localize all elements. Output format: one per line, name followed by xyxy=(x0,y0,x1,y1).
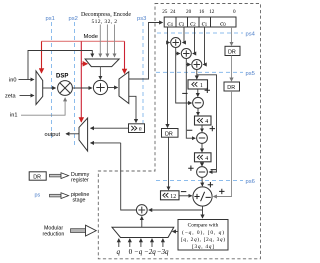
svg-text:Decompress, Encode: Decompress, Encode xyxy=(81,12,131,18)
final adder/subtractor +/- xyxy=(193,187,212,206)
wire S1 to <<4 xyxy=(197,108,199,115)
sign plus right of +/- adder xyxy=(219,189,224,194)
shifter << 1 xyxy=(188,80,208,89)
sign plus at S1 xyxy=(205,88,210,93)
node: c4 branch to A1 xyxy=(168,42,170,44)
svg-text:DR: DR xyxy=(165,131,173,137)
red vertical to output mux M4 xyxy=(80,41,82,122)
adder (DSP post-adder) xyxy=(93,80,107,94)
pipeline stage line ps4 xyxy=(157,32,256,38)
wire DR2 down to +/- adder right input xyxy=(214,91,232,197)
svg-text:24: 24 xyxy=(170,9,176,15)
svg-text:output: output xyxy=(45,132,61,138)
wire zeta to mux M1 xyxy=(20,95,34,97)
wire c3 to A1 xyxy=(183,27,185,43)
wire <<4 to S2 xyxy=(201,125,203,132)
red mode-select net: horizontal distribution wire xyxy=(42,40,125,42)
wire S3 to final +/- adder xyxy=(201,177,203,186)
branch A1 to A2 xyxy=(176,53,180,55)
wire c1 to A3 xyxy=(203,27,204,65)
wire M3 to shifter >>n xyxy=(129,96,136,122)
sign plus at S2 xyxy=(187,126,215,131)
coefficient register c4..c0 xyxy=(164,17,236,28)
svg-text:DR: DR xyxy=(33,175,41,181)
pipeline stage line ps3 xyxy=(137,16,146,123)
pipeline stage line ps5 xyxy=(156,71,255,77)
svg-text:ps4: ps4 xyxy=(246,32,256,38)
red arrow into demux M3 xyxy=(124,41,126,73)
svg-text:20: 20 xyxy=(186,9,192,15)
wire S2 to second <<4 xyxy=(201,143,203,152)
wire M2 to adder xyxy=(99,67,101,80)
wire compare select to constant mux M5 xyxy=(173,231,179,233)
output mux M4 xyxy=(79,118,88,151)
svg-text:0: 0 xyxy=(233,9,236,15)
legend arrow 1 xyxy=(50,173,69,179)
svg-text:q: q xyxy=(117,248,121,256)
wire A1 out to A2 and S1 xyxy=(176,48,192,104)
wire 32 to mux M2 xyxy=(106,25,108,57)
compare box xyxy=(178,220,228,251)
demux M3 xyxy=(119,72,129,104)
sign minus at S1 xyxy=(182,92,187,94)
wire reduction result to M4 xyxy=(91,142,121,144)
operand mux M2 xyxy=(85,59,119,67)
svg-text:[q, 2q), [2q, 3q): [q, 2q), [2q, 3q) xyxy=(181,236,225,243)
svg-text:1: 1 xyxy=(200,83,203,89)
svg-text:(−q, 0), [0, q): (−q, 0), [0, q) xyxy=(182,229,224,236)
red arrow into input mux M1 xyxy=(41,41,43,73)
constant input 0 xyxy=(129,239,131,247)
wire +/- to compare box xyxy=(202,206,204,218)
svg-text:in1: in1 xyxy=(10,113,17,119)
svg-text:DR: DR xyxy=(227,85,235,91)
svg-text:ps2: ps2 xyxy=(69,16,78,22)
svg-text:zeta: zeta xyxy=(5,94,16,100)
wire A3 to shift-left-1 xyxy=(196,70,198,80)
wire A2 out to A3 and S2 xyxy=(186,59,195,139)
adder A3 xyxy=(192,60,202,70)
constant input -2q xyxy=(151,239,153,247)
subtractor S3 xyxy=(197,167,208,178)
wire c4 down (to adder A1 and DR) xyxy=(167,27,169,128)
shifter >> n xyxy=(129,124,145,133)
adder A2 xyxy=(181,49,191,59)
wire M5 to bottom adder xyxy=(141,217,143,228)
svg-text:−2q: −2q xyxy=(144,248,156,256)
sign minus at final adder left xyxy=(181,191,186,193)
svg-text:Mode: Mode xyxy=(84,34,99,40)
sign plus above +/- adder xyxy=(208,182,213,187)
pipeline stage line ps6 xyxy=(156,179,255,185)
dummy register DR (left, c4 path) xyxy=(162,129,179,138)
svg-text:−3q: −3q xyxy=(157,248,169,256)
wire +/- result left to bottom adder xyxy=(149,209,203,211)
svg-text:−q: −q xyxy=(134,248,143,256)
svg-text:25: 25 xyxy=(162,9,168,15)
svg-text:0: 0 xyxy=(129,248,133,256)
branch A2 to A3 xyxy=(186,64,190,66)
wire DR to <<12 xyxy=(168,137,170,190)
pipeline stage line ps2 xyxy=(69,16,78,145)
wire M1 to multiplier xyxy=(43,87,56,89)
constant labels xyxy=(117,248,170,256)
dummy register DR2 xyxy=(224,82,240,91)
wire DR1 to DR2 xyxy=(231,56,233,82)
constant input q xyxy=(118,239,120,247)
subtractor S1 xyxy=(193,97,204,108)
svg-text:n: n xyxy=(139,127,142,133)
svg-text:ps6: ps6 xyxy=(246,179,255,185)
dummy register DR1 (c0 path) xyxy=(225,46,240,55)
shifter << 4 (second) xyxy=(195,153,212,162)
wire adder to demux M3 xyxy=(108,87,118,89)
multiplier (DSP) xyxy=(58,81,73,96)
pipeline stage line ps1 xyxy=(46,16,55,140)
sign plus at S3 xyxy=(188,166,216,171)
dashed modular-reduction region border xyxy=(98,4,260,259)
adder A1 xyxy=(171,38,181,48)
wire c2 to A2 xyxy=(193,27,195,54)
svg-text:[3q, 4q]: [3q, 4q] xyxy=(192,244,214,250)
svg-text:ps3: ps3 xyxy=(137,16,146,22)
svg-text:12: 12 xyxy=(209,9,215,15)
svg-text:in0: in0 xyxy=(9,78,16,84)
wire in0 to mux M1 xyxy=(19,79,34,81)
svg-text:512, 32, 2: 512, 32, 2 xyxy=(92,19,118,25)
svg-text:register: register xyxy=(71,178,89,184)
svg-text:ps1: ps1 xyxy=(46,16,55,22)
constant input -3q xyxy=(162,239,164,247)
svg-text:ps5: ps5 xyxy=(246,71,255,77)
feedback wire from in0 up to operand mux M2 (Mode input) xyxy=(28,51,92,80)
wire from bottom adder up-left (reduction result) xyxy=(121,143,137,210)
wire c0 to DR1 xyxy=(231,27,233,45)
wire >>n to output mux M4 xyxy=(91,127,129,129)
svg-text:16: 16 xyxy=(199,9,205,15)
wire M4 to output xyxy=(66,133,79,135)
input mux M1 (in0/zeta) xyxy=(36,71,43,105)
constant mux M5 xyxy=(112,227,174,237)
shifter << 4 (first) xyxy=(195,116,212,125)
svg-text:4: 4 xyxy=(205,156,208,162)
svg-text:stage: stage xyxy=(73,198,86,204)
wire multiplier to adder xyxy=(72,87,91,89)
wire <<12 to +/- adder xyxy=(179,195,192,197)
svg-text:DSP: DSP xyxy=(56,74,68,80)
bit index labels 25 24 20 16 12 0 xyxy=(162,9,236,15)
svg-text:4: 4 xyxy=(205,119,208,125)
svg-text:reduction: reduction xyxy=(43,232,65,238)
wire in1 to multiplier xyxy=(21,98,65,115)
svg-text:12: 12 xyxy=(170,194,176,200)
subtractor S2 xyxy=(197,133,208,144)
shifter << 12 xyxy=(161,191,180,200)
wire 512 to mux M2 xyxy=(99,25,101,57)
wire <<4 to S3 xyxy=(201,162,203,166)
red branch arrow into operand mux M2 xyxy=(81,63,87,65)
wire M3 to coefficient register xyxy=(129,23,163,80)
svg-text:Compare with: Compare with xyxy=(188,223,219,229)
wire 2 to mux M2 xyxy=(114,25,116,57)
wire <<1 to S1 xyxy=(197,89,199,97)
bottom adder (add constant) xyxy=(136,205,147,216)
legend arrow 3 (modular reduction) xyxy=(71,225,97,236)
wire A3 sum branch down to subtractor S3 xyxy=(197,75,217,172)
constant input -q xyxy=(140,239,142,247)
legend: DR dummy register xyxy=(29,172,46,181)
legend arrow 2 xyxy=(50,193,69,199)
svg-text:ps: ps xyxy=(35,193,41,199)
svg-text:DR: DR xyxy=(228,49,236,55)
